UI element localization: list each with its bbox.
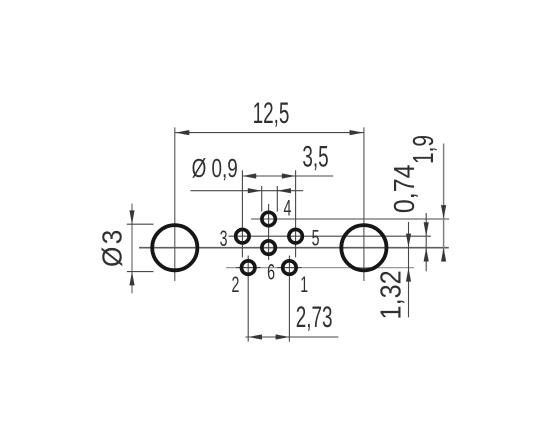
svg-text:1,32: 1,32 bbox=[374, 270, 407, 319]
svg-text:2,73: 2,73 bbox=[296, 301, 333, 335]
svg-text:3: 3 bbox=[220, 225, 228, 250]
svg-text:6: 6 bbox=[267, 259, 275, 284]
svg-text:5: 5 bbox=[312, 225, 320, 250]
svg-text:Ø 0,9: Ø 0,9 bbox=[192, 154, 238, 182]
svg-text:3,5: 3,5 bbox=[302, 140, 328, 174]
svg-text:Ø: Ø bbox=[97, 247, 128, 267]
svg-text:2: 2 bbox=[232, 271, 240, 296]
svg-text:12,5: 12,5 bbox=[253, 97, 290, 131]
svg-text:4: 4 bbox=[283, 195, 291, 220]
svg-text:0,74: 0,74 bbox=[388, 165, 420, 214]
svg-text:3: 3 bbox=[97, 230, 128, 245]
svg-text:1,9: 1,9 bbox=[408, 135, 440, 164]
svg-text:1: 1 bbox=[300, 272, 308, 297]
